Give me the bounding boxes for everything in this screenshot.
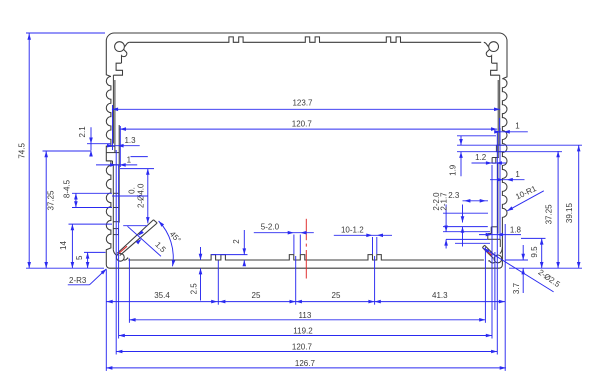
svg-text:25: 25 bbox=[332, 291, 341, 300]
svg-text:35.4: 35.4 bbox=[154, 291, 170, 300]
bottom dim row 4 : 120.7 bbox=[116, 351, 497, 353]
T-step right wall bbox=[491, 63, 500, 75]
dim 1 right top bbox=[495, 131, 528, 133]
red thread mark bottom-right bbox=[485, 250, 492, 255]
dim 1.3 left wall slot bbox=[111, 145, 140, 147]
leader 10-R1 bbox=[507, 191, 544, 211]
dim 2.1 left bbox=[90, 127, 92, 150]
svg-text:5: 5 bbox=[75, 255, 84, 260]
dim 5 left bbox=[87, 252, 89, 268]
dim 37.25 left bbox=[45, 151, 47, 268]
corner screw boss bottom-left (45 deg) bbox=[116, 253, 124, 261]
dim 2 floor bump height bbox=[243, 230, 245, 255]
right wall 1.2 slot bbox=[492, 157, 499, 159]
dim 14 left bbox=[71, 224, 73, 268]
dim 1.8 right slot bbox=[479, 234, 521, 236]
bottom dim row 1 : 35.4 / 2.5 / 25 / 25 / 41.3 bbox=[107, 301, 506, 303]
dim 9.5 right bbox=[541, 238, 543, 268]
dim 74.5 overall height bbox=[28, 34, 30, 269]
dim 2.3 right bbox=[463, 200, 489, 202]
extension lines top dims bbox=[112, 105, 114, 150]
dim 120.7 top rail width bbox=[120, 128, 497, 130]
dim 1 right fin bbox=[490, 179, 525, 181]
dim 1.9 right bbox=[460, 136, 462, 145]
dim 39.15 right bbox=[578, 145, 580, 268]
svg-text:39.15: 39.15 bbox=[565, 203, 574, 224]
svg-text:1.3: 1.3 bbox=[124, 136, 136, 145]
svg-text:37.25: 37.25 bbox=[46, 190, 55, 211]
floor inner line bbox=[128, 255, 484, 260]
svg-text:5-2.0: 5-2.0 bbox=[261, 222, 280, 231]
svg-text:0.: 0. bbox=[128, 187, 137, 194]
T-step left wall bbox=[113, 63, 122, 75]
svg-text:9.5: 9.5 bbox=[530, 246, 539, 258]
dim 8-4.5 left bbox=[75, 193, 77, 207]
screw boss top-right bbox=[489, 42, 499, 52]
dim 2-Ø4.0 left bbox=[147, 169, 149, 224]
svg-text:74.5: 74.5 bbox=[17, 143, 26, 159]
svg-text:14: 14 bbox=[59, 241, 68, 250]
svg-text:113: 113 bbox=[299, 311, 312, 320]
svg-text:8-4.5: 8-4.5 bbox=[62, 179, 71, 198]
svg-text:41.3: 41.3 bbox=[432, 291, 448, 300]
svg-text:25: 25 bbox=[252, 291, 261, 300]
svg-text:1.8: 1.8 bbox=[510, 225, 522, 234]
dim 1.5 slot width bbox=[128, 226, 162, 256]
bottom extension lines bbox=[105, 270, 107, 371]
svg-text:2.3: 2.3 bbox=[448, 191, 460, 200]
profile outer outline with heatsink fins bbox=[106, 33, 507, 268]
svg-text:2: 2 bbox=[232, 239, 241, 244]
svg-text:2-1.7: 2-1.7 bbox=[439, 192, 448, 211]
dim 2-1.7 right bbox=[462, 205, 464, 223]
svg-text:126.7: 126.7 bbox=[295, 359, 316, 368]
corner screw boss bottom-right (45 deg) bbox=[494, 255, 502, 263]
svg-text:2.5: 2.5 bbox=[190, 283, 199, 295]
dim 123.7 top inner width bbox=[112, 108, 500, 110]
dim 37.25 right bbox=[557, 151, 559, 268]
right wall neck detail bbox=[496, 144, 504, 146]
inner top wall line with vent notch pairs bbox=[129, 37, 481, 42]
svg-text:1: 1 bbox=[515, 122, 520, 131]
svg-text:120.7: 120.7 bbox=[292, 119, 313, 128]
bottom dim row 3 : 119.2 bbox=[119, 335, 492, 337]
dim 1.2 right slot bbox=[472, 162, 507, 164]
bottom dim row 2 : 113 bbox=[129, 319, 485, 321]
dim 5-2.0 floor slots bbox=[254, 232, 314, 234]
right wall z-slot (1.8) bbox=[491, 226, 498, 228]
dim 10-1.2 floor slots bbox=[334, 234, 392, 236]
svg-text:1.2: 1.2 bbox=[475, 153, 487, 162]
bottom dim row 5 : 126.7 bbox=[106, 367, 506, 369]
left wall verticals bbox=[112, 75, 114, 143]
svg-text:3.7: 3.7 bbox=[512, 282, 521, 294]
svg-text:1.9: 1.9 bbox=[448, 164, 457, 176]
svg-text:120.7: 120.7 bbox=[292, 343, 313, 352]
svg-text:123.7: 123.7 bbox=[292, 99, 313, 108]
red thread mark bottom-left bbox=[118, 246, 127, 254]
leader 2-Ø2.5 bbox=[483, 248, 553, 292]
svg-text:10-1.2: 10-1.2 bbox=[341, 225, 364, 234]
svg-text:37.25: 37.25 bbox=[545, 204, 554, 225]
dim 45deg arc bbox=[159, 221, 174, 266]
dim 1 left wall slot bbox=[96, 164, 137, 166]
left wall slot detail (1.3 / 1 dims) bbox=[106, 145, 115, 147]
dim 3.7 right bbox=[522, 245, 524, 260]
svg-text:119.2: 119.2 bbox=[293, 327, 313, 336]
svg-text:2.1: 2.1 bbox=[78, 126, 87, 138]
screw boss top-left bbox=[115, 42, 125, 52]
dim 2-2.0 right bbox=[445, 205, 447, 232]
red centerline bbox=[305, 219, 307, 240]
svg-text:2-R3: 2-R3 bbox=[69, 276, 87, 285]
svg-text:1: 1 bbox=[515, 170, 520, 179]
right wall verticals bbox=[499, 75, 501, 145]
